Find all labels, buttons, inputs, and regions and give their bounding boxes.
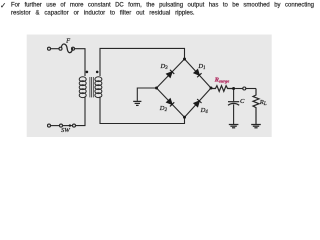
svg-text:Rsurge: Rsurge (214, 77, 229, 84)
svg-text:SW: SW (61, 127, 70, 134)
svg-text:C: C (240, 98, 245, 105)
